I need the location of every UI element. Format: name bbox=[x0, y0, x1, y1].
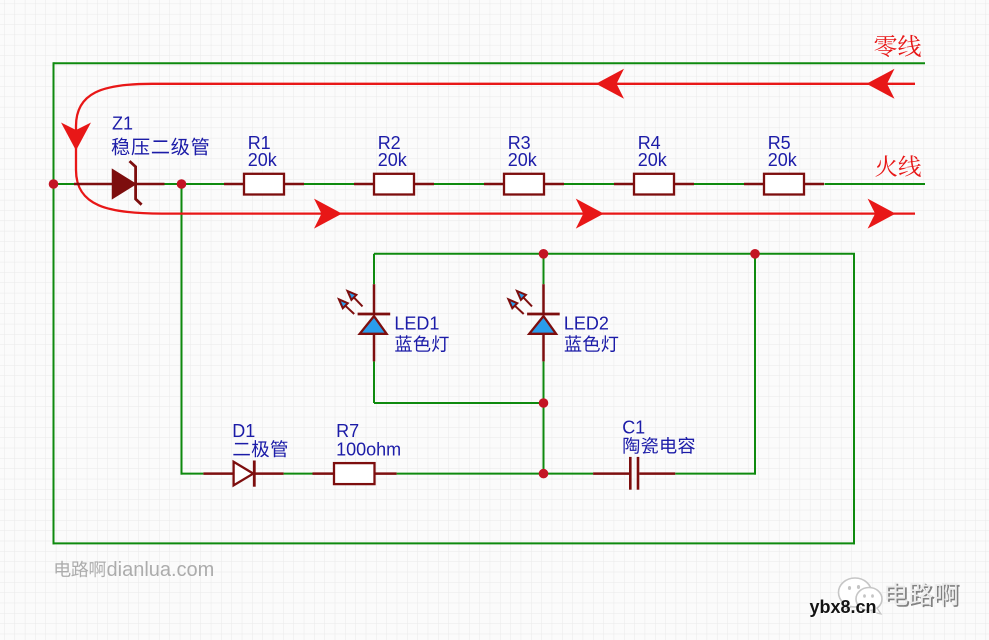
svg-text:dianlua.com: dianlua.com bbox=[107, 559, 215, 581]
wire: LED box bottom (y=403) bbox=[374, 402, 544, 404]
junction node at (755,253.8) bbox=[750, 249, 760, 259]
svg-text:20k: 20k bbox=[768, 150, 798, 170]
LED1 (blue LED) bbox=[358, 284, 391, 361]
svg-text:ybx8.cn: ybx8.cn bbox=[810, 597, 877, 617]
resistor R7 bbox=[313, 463, 397, 484]
svg-text:D1: D1 bbox=[232, 421, 255, 441]
LED2 (blue LED) bbox=[527, 284, 560, 361]
wire: bottom edge (y=543) bbox=[53, 542, 856, 544]
current arrow (bottom line, pointing right, right) bbox=[868, 199, 896, 229]
svg-text:LED1: LED1 bbox=[394, 313, 439, 333]
wire: LED top rail (y=254) bbox=[374, 253, 855, 255]
wire: LED2 branch verticals (x=543.5) bbox=[543, 254, 545, 475]
label 零线 (neutral line) bbox=[875, 35, 921, 57]
current arrow (left curve, pointing down) bbox=[61, 123, 91, 151]
svg-text:20k: 20k bbox=[638, 150, 668, 170]
logo text 电路啊 (embossed) bbox=[888, 584, 960, 607]
svg-text:LED2: LED2 bbox=[564, 313, 609, 333]
wire: live rail (y=184) green segments bbox=[54, 183, 926, 185]
resistor R3 bbox=[484, 174, 564, 195]
current arrow (top line, pointing left, mid) bbox=[596, 69, 624, 99]
svg-text:100ohm: 100ohm bbox=[336, 440, 401, 460]
LED1 value label 蓝色灯 bbox=[395, 335, 448, 352]
resistor R5 bbox=[744, 174, 824, 195]
junction node at (181.5,184) bbox=[177, 179, 187, 189]
watermark 电路啊 bbox=[55, 561, 105, 578]
current arrow (top line, pointing left, right) bbox=[867, 69, 895, 99]
junction node at (543.5,403) bbox=[539, 398, 549, 408]
logo icon (chat bubbles) bbox=[839, 578, 883, 614]
junction node at (543.5,253.8) bbox=[539, 249, 549, 259]
LED2 value label 蓝色灯 bbox=[565, 335, 618, 352]
resistor R4 bbox=[614, 174, 694, 195]
current arrow (bottom line, pointing right, mid) bbox=[576, 199, 604, 229]
resistor R1 bbox=[224, 174, 304, 195]
wire: left edge (x=53) bbox=[53, 62, 55, 544]
zener diode Z1 bbox=[74, 161, 165, 205]
svg-text:20k: 20k bbox=[378, 150, 408, 170]
current arrow (bottom line, pointing right, left) bbox=[314, 199, 342, 229]
label 火线 (live line) bbox=[875, 155, 920, 177]
current flow path (red, neutral top + loop back on live side) bbox=[76, 84, 915, 214]
wire: right edge (x=854) bbox=[853, 254, 855, 545]
wire: bottom path (y=473.6) green segments bbox=[181, 473, 757, 475]
D1 value label 二极管 bbox=[233, 440, 287, 457]
svg-text:R7: R7 bbox=[336, 421, 359, 441]
wire: vertical from node at (181,184) down to bottom path bbox=[181, 184, 183, 475]
wire: vertical x=755 (C1 side up to LED rail) bbox=[754, 254, 756, 475]
svg-text:Z1: Z1 bbox=[112, 114, 133, 134]
Z1 value label 稳压二级管 bbox=[112, 138, 209, 156]
junction node at (53.5,184) bbox=[49, 179, 59, 189]
capacitor C1 bbox=[593, 457, 675, 490]
diode D1 bbox=[203, 461, 283, 487]
svg-text:C1: C1 bbox=[622, 417, 645, 437]
C1 value label 陶瓷电容 bbox=[624, 437, 695, 454]
svg-text:20k: 20k bbox=[248, 150, 278, 170]
junction node at (543.5,473.6) bbox=[539, 469, 549, 479]
resistor R2 bbox=[354, 174, 434, 195]
wire: neutral rail (top, y=63) bbox=[54, 62, 926, 64]
svg-text:20k: 20k bbox=[508, 150, 538, 170]
wire: LED1 branch verticals (x=374) bbox=[373, 254, 375, 403]
